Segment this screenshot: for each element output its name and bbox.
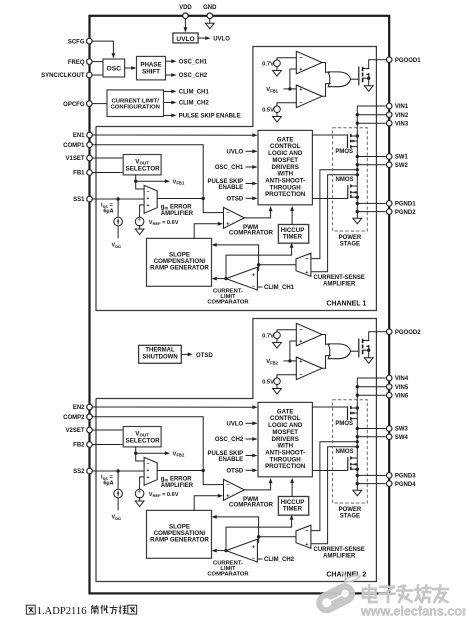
block OSC	[103, 59, 125, 77]
current source ISS 6uA channel 2	[116, 469, 119, 472]
svg-text:FREQ: FREQ	[68, 60, 85, 66]
svg-text:AMPLIFIER: AMPLIFIER	[323, 553, 356, 559]
wire slope ramp to PWM comparator channel 2	[194, 496, 218, 511]
svg-text:CLIM_CH2: CLIM_CH2	[264, 557, 295, 563]
ground GND pin	[209, 19, 211, 24]
svg-text:UVLO: UVLO	[227, 422, 244, 428]
current-sense amplifier channel 2	[296, 525, 311, 548]
block gate control logic channel 1	[258, 130, 312, 204]
svg-text:POWER: POWER	[339, 235, 362, 241]
wire current-limit comparator output to hiccup timer channel 2	[226, 519, 292, 551]
voltage source VREF 0.6V channel 2	[135, 489, 144, 498]
svg-text:TIMER: TIMER	[283, 506, 303, 513]
svg-text:CONFIGURATION: CONFIGURATION	[111, 104, 160, 110]
wire current-sense minus input from switch node channel 1	[311, 170, 357, 259]
ground below VREF channel 1	[135, 229, 144, 235]
wire EN2 to gate control	[92, 406, 253, 408]
svg-text:VIN3: VIN3	[395, 121, 409, 127]
wire current-sense output to slope generator and current-limit comparator channel 1	[259, 264, 296, 266]
wire comparators to OR gate channel 1	[322, 63, 330, 73]
svg-text:0.5V: 0.5V	[262, 379, 274, 385]
svg-text:UVLO: UVLO	[213, 36, 230, 42]
wire VDD to UVLO block	[184, 19, 186, 29]
svg-text:AMPLIFIER: AMPLIFIER	[161, 211, 194, 217]
block VOUT selector channel 2	[123, 427, 161, 447]
signal VFB1 arrow	[136, 180, 166, 182]
signal VFB2 arrow	[136, 452, 166, 454]
svg-text:EN2: EN2	[73, 405, 85, 411]
svg-text:−: −	[305, 257, 308, 263]
svg-text:PGOOD1: PGOOD1	[395, 58, 421, 64]
svg-text:+: +	[252, 272, 255, 278]
wire OSC to PHASE SHIFT	[125, 67, 132, 69]
PGOOD comparator upper channel 1	[296, 51, 322, 74]
gm error amplifier channel 2	[144, 457, 157, 485]
svg-text:OPCFG: OPCFG	[63, 102, 85, 108]
svg-text:+: +	[299, 67, 302, 73]
svg-text:OSC_CH1: OSC_CH1	[179, 59, 208, 65]
svg-text:VFB1: VFB1	[266, 87, 278, 93]
block slope compensation ramp generator channel 2	[147, 510, 212, 558]
svg-text:PROTECTION: PROTECTION	[265, 463, 306, 470]
caption text: figure 1 ADP2116 simplified block diagram	[26, 605, 35, 614]
svg-text:VREF = 0.6V: VREF = 0.6V	[149, 220, 179, 226]
block HICCUP TIMER channel 2	[278, 497, 308, 516]
svg-text:COMPARATOR: COMPARATOR	[229, 230, 274, 237]
svg-text:−: −	[252, 556, 255, 562]
svg-text:COMPARATOR: COMPARATOR	[207, 300, 249, 306]
signal CLIM_CH2	[164, 102, 172, 104]
wire hiccup timer to gate control channel 2	[291, 482, 293, 497]
block HICCUP TIMER channel 1	[278, 225, 308, 244]
svg-text:SS1: SS1	[73, 197, 85, 203]
svg-text:PGND1: PGND1	[395, 202, 416, 208]
pin PGOOD1	[386, 57, 392, 63]
wire OR gate to PGOOD transistor channel 2	[351, 350, 359, 352]
svg-text:+: +	[305, 542, 308, 548]
svg-text:SELECTOR: SELECTOR	[126, 437, 161, 444]
svg-text:OTSD: OTSD	[196, 353, 213, 359]
svg-text:UVLO: UVLO	[227, 150, 244, 156]
svg-text:www.elecfans.com: www.elecfans.com	[360, 605, 466, 619]
OR gate PGOOD channel 1	[328, 72, 350, 87]
ground below VREF channel 2	[135, 501, 144, 507]
svg-text:−: −	[146, 189, 149, 195]
svg-text:OTSD: OTSD	[227, 197, 244, 203]
power stage dashed box channel 1	[333, 128, 368, 231]
svg-text:TIMER: TIMER	[283, 234, 303, 241]
wire current-limit comparator output to slope generator channel 1	[224, 277, 227, 280]
signal CLIM_CH2 into comparator	[257, 558, 262, 560]
wire error amp output / COMP node channel 1	[157, 198, 203, 200]
power ground channel 2	[353, 490, 362, 496]
svg-text:+: +	[299, 87, 302, 93]
svg-text:+: +	[226, 221, 229, 227]
PGOOD comparator upper channel 2	[296, 323, 322, 346]
svg-text:VIN6: VIN6	[395, 393, 409, 399]
PMOS power transistor channel 1	[312, 134, 347, 136]
svg-text:CLIM_CH1: CLIM_CH1	[264, 285, 295, 291]
block CURRENT LIMIT/CONFIGURATION	[107, 90, 164, 117]
wire SS1 to error amp	[92, 198, 144, 200]
svg-text:+: +	[252, 544, 255, 550]
svg-text:AMPLIFIER: AMPLIFIER	[161, 483, 194, 489]
current source ISS 6uA channel 1	[116, 197, 119, 200]
svg-text:VFB2: VFB2	[173, 451, 185, 457]
wire current-sense minus input from switch node channel 2	[311, 442, 357, 531]
wire FB2 to VOUT selector	[92, 444, 123, 446]
svg-text:VDD: VDD	[112, 243, 122, 249]
power ground channel 1	[353, 218, 362, 224]
block VOUT selector channel 1	[123, 155, 161, 175]
svg-text:+: +	[146, 203, 149, 209]
svg-text:ENABLE: ENABLE	[219, 185, 244, 191]
wire COMP2 to error amp output node	[92, 417, 203, 471]
wire SYNC/CLKOUT to OSC	[92, 74, 103, 76]
signal OSC_CH1	[166, 60, 172, 62]
signal OSC_CH2	[166, 74, 172, 76]
wire V2SET to VOUT selector	[92, 429, 123, 431]
wire FB1 to VOUT selector	[92, 172, 123, 174]
current-sense amplifier channel 1	[296, 253, 311, 276]
wire VOUT selector to VFB1 node and error amp	[136, 174, 144, 189]
signal PULSE SKIP ENABLE	[164, 114, 172, 116]
transistor PGOOD open-drain channel 1	[358, 67, 360, 86]
svg-text:RAMP GENERATOR: RAMP GENERATOR	[150, 537, 209, 544]
wire COMP1 to error amp output node	[92, 145, 203, 199]
svg-text:GND: GND	[203, 5, 217, 11]
svg-text:gm ERROR: gm ERROR	[161, 476, 193, 482]
svg-text:OSC_CH2: OSC_CH2	[215, 437, 244, 443]
wire OPCFG to configuration block	[92, 103, 107, 105]
pin PGOOD2	[386, 329, 392, 335]
svg-text:−: −	[299, 373, 302, 379]
PWM comparator channel 1	[224, 207, 245, 228]
power rail channel 2	[356, 378, 358, 490]
svg-text:RAMP GENERATOR: RAMP GENERATOR	[150, 265, 209, 272]
svg-text:V2SET: V2SET	[65, 428, 84, 434]
ground below PGOOD transistor channel 2	[364, 358, 373, 364]
block slope compensation ramp generator channel 1	[147, 238, 212, 286]
wire error amp output / COMP node channel 2	[157, 470, 203, 472]
wire current-limit comparator output to hiccup timer channel 1	[226, 247, 292, 279]
svg-text:COMP1: COMP1	[63, 143, 85, 149]
svg-text:PGOOD2: PGOOD2	[395, 330, 421, 336]
wire PWM output to gate control channel 1	[244, 210, 270, 218]
svg-text:PMOS: PMOS	[335, 421, 353, 427]
svg-text:CHANNEL 1: CHANNEL 1	[326, 301, 366, 308]
svg-text:OSC: OSC	[107, 65, 122, 72]
svg-text:V1SET: V1SET	[65, 156, 84, 162]
svg-text:VDD: VDD	[179, 5, 192, 11]
wire hiccup timer to gate control channel 1	[291, 210, 293, 225]
svg-text:CLIM_CH1: CLIM_CH1	[179, 90, 210, 96]
wire current-sense plus input channel 1	[311, 175, 357, 272]
svg-text:STAGE: STAGE	[340, 514, 360, 520]
block UVLO	[173, 33, 198, 43]
wire current-limit comparator output to slope generator channel 2	[224, 549, 227, 552]
IC outline (ADP2116 chip boundary)	[90, 16, 390, 594]
wire current-sense plus input channel 2	[311, 447, 357, 544]
signal CLIM_CH1	[164, 90, 172, 92]
svg-text:−: −	[299, 328, 302, 334]
svg-text:SW4: SW4	[395, 435, 409, 441]
svg-text:CLIM_CH2: CLIM_CH2	[179, 101, 210, 107]
svg-text:+: +	[146, 475, 149, 481]
wire SS2 to error amp	[92, 470, 144, 472]
svg-text:0.7V: 0.7V	[262, 333, 274, 339]
svg-text:CURRENT-SENSE: CURRENT-SENSE	[314, 547, 365, 553]
svg-text:SELECTOR: SELECTOR	[126, 165, 161, 172]
gm error amplifier channel 1	[144, 185, 157, 213]
pins PGND1 PGND2	[386, 201, 392, 207]
wire EN1 to gate control	[92, 134, 253, 136]
svg-text:STAGE: STAGE	[340, 242, 360, 248]
ground below PGOOD transistor channel 1	[364, 86, 373, 92]
svg-text:+: +	[146, 196, 149, 202]
svg-text:VIN5: VIN5	[395, 385, 409, 391]
svg-text:SHIFT: SHIFT	[142, 69, 160, 76]
svg-text:+: +	[299, 339, 302, 345]
wire UVLO output	[198, 37, 205, 39]
svg-text:+: +	[299, 359, 302, 365]
svg-text:FB1: FB1	[73, 171, 85, 177]
watermark text dianzifashaoyou	[363, 586, 377, 603]
svg-text:+: +	[305, 270, 308, 276]
svg-text:+: +	[146, 468, 149, 474]
svg-text:−: −	[226, 483, 229, 489]
PWM comparator channel 2	[224, 479, 245, 500]
block PHASE SHIFT	[137, 56, 166, 80]
current-limit comparator channel 1	[226, 267, 257, 290]
PGOOD comparator lower channel 1	[296, 85, 322, 108]
svg-text:−: −	[226, 211, 229, 217]
svg-text:6µA: 6µA	[103, 481, 113, 487]
svg-text:−: −	[299, 56, 302, 62]
current-limit comparator channel 2	[226, 539, 257, 562]
svg-text:EN1: EN1	[73, 133, 85, 139]
svg-text:POWER: POWER	[339, 507, 362, 513]
PMOS power transistor channel 2	[312, 406, 347, 408]
svg-text:NMOS: NMOS	[336, 449, 354, 455]
pins SW3 SW4	[386, 426, 392, 432]
svg-text:OSC_CH2: OSC_CH2	[179, 73, 208, 79]
svg-text:PHASE: PHASE	[140, 62, 161, 69]
pins VIN4 VIN5 VIN6	[386, 375, 392, 381]
wire PWM output to gate control channel 2	[244, 482, 270, 490]
wire OR gate to PGOOD transistor channel 1	[351, 78, 359, 80]
block THERMAL SHUTDOWN	[139, 345, 182, 363]
svg-text:SW3: SW3	[395, 427, 409, 433]
power rail channel 1	[356, 106, 358, 218]
svg-text:COMPARATOR: COMPARATOR	[207, 572, 249, 578]
svg-text:−: −	[252, 284, 255, 290]
svg-text:PGND2: PGND2	[395, 210, 416, 216]
signal CLIM_CH1 into comparator	[257, 286, 262, 288]
svg-text:VIN4: VIN4	[395, 376, 409, 382]
watermark logo elecfans	[313, 572, 360, 617]
OR gate PGOOD channel 2	[328, 344, 350, 359]
svg-text:+: +	[226, 493, 229, 499]
svg-text:gm ERROR: gm ERROR	[161, 204, 193, 210]
svg-text:COMP2: COMP2	[63, 415, 85, 421]
svg-text:0.7V: 0.7V	[262, 61, 274, 67]
svg-text:PGND4: PGND4	[395, 482, 416, 488]
svg-text:COMPARATOR: COMPARATOR	[229, 502, 274, 509]
svg-text:SW1: SW1	[395, 155, 409, 161]
svg-text:VFB2: VFB2	[266, 359, 278, 365]
pins PGND3 PGND4	[386, 473, 392, 479]
signal OTSD from thermal shutdown	[181, 353, 188, 355]
svg-text:SW2: SW2	[395, 163, 409, 169]
svg-text:AMPLIFIER: AMPLIFIER	[323, 281, 356, 287]
svg-text:NMOS: NMOS	[336, 177, 354, 183]
svg-text:SYNC/CLKOUT: SYNC/CLKOUT	[41, 73, 85, 79]
svg-text:VFB1: VFB1	[173, 179, 185, 185]
svg-text:−: −	[146, 461, 149, 467]
transistor PGOOD open-drain channel 2	[358, 339, 360, 358]
svg-text:SCFG: SCFG	[68, 39, 85, 45]
svg-text:VREF = 0.6V: VREF = 0.6V	[149, 492, 179, 498]
block gate control logic channel 2	[258, 402, 312, 476]
PGOOD comparator lower channel 2	[296, 357, 322, 380]
svg-text:VDD: VDD	[112, 515, 122, 521]
pins VIN1 VIN2 VIN3	[386, 103, 392, 109]
svg-text:SHUTDOWN: SHUTDOWN	[142, 354, 177, 360]
wire current-sense output to slope generator and current-limit comparator channel 2	[259, 536, 296, 538]
svg-text:PROTECTION: PROTECTION	[265, 191, 306, 198]
svg-text:VIN2: VIN2	[395, 113, 409, 119]
wire V1SET to VOUT selector	[92, 157, 123, 159]
svg-text:VIN1: VIN1	[395, 104, 409, 110]
svg-text:1.ADP2116: 1.ADP2116	[37, 606, 87, 617]
svg-text:CURRENT-SENSE: CURRENT-SENSE	[314, 275, 365, 281]
pins SW1 SW2	[386, 154, 392, 160]
svg-text:THERMAL: THERMAL	[145, 347, 175, 353]
svg-text:OTSD: OTSD	[227, 469, 244, 475]
svg-text:6µA: 6µA	[103, 209, 113, 215]
svg-text:PMOS: PMOS	[335, 149, 353, 155]
svg-text:PULSE SKIP ENABLE: PULSE SKIP ENABLE	[179, 114, 241, 120]
wire slope ramp to PWM comparator channel 1	[194, 224, 218, 239]
svg-text:−: −	[305, 529, 308, 535]
svg-text:OSC_CH1: OSC_CH1	[215, 165, 244, 171]
svg-text:0.5V: 0.5V	[262, 107, 274, 113]
channel 2 block outline	[96, 319, 376, 582]
svg-text:ENABLE: ENABLE	[219, 457, 244, 463]
wire VOUT selector to VFB2 node and error amp	[136, 446, 144, 461]
svg-text:SS2: SS2	[73, 469, 85, 475]
svg-text:UVLO: UVLO	[176, 36, 194, 43]
channel 1 block outline	[96, 47, 376, 311]
svg-text:−: −	[299, 101, 302, 107]
power stage dashed box channel 2	[333, 400, 368, 503]
svg-text:FB2: FB2	[73, 443, 85, 449]
svg-text:PGND3: PGND3	[395, 474, 416, 480]
voltage source VREF 0.6V channel 1	[135, 217, 144, 226]
wire FREQ to OSC	[92, 61, 103, 63]
wire comparators to OR gate channel 2	[322, 335, 330, 345]
wire SCFG to OSC	[92, 41, 113, 53]
